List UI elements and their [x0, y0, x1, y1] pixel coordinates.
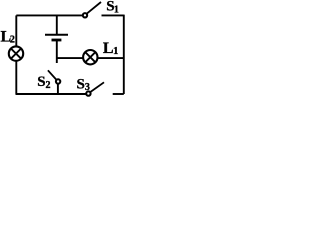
svg-text:S: S [77, 76, 85, 92]
svg-text:L: L [103, 40, 114, 57]
svg-text:1: 1 [113, 46, 118, 57]
svg-text:1: 1 [114, 5, 119, 16]
svg-text:2: 2 [10, 35, 15, 46]
svg-text:S: S [37, 74, 45, 90]
svg-text:2: 2 [46, 80, 51, 91]
svg-text:3: 3 [85, 82, 90, 93]
